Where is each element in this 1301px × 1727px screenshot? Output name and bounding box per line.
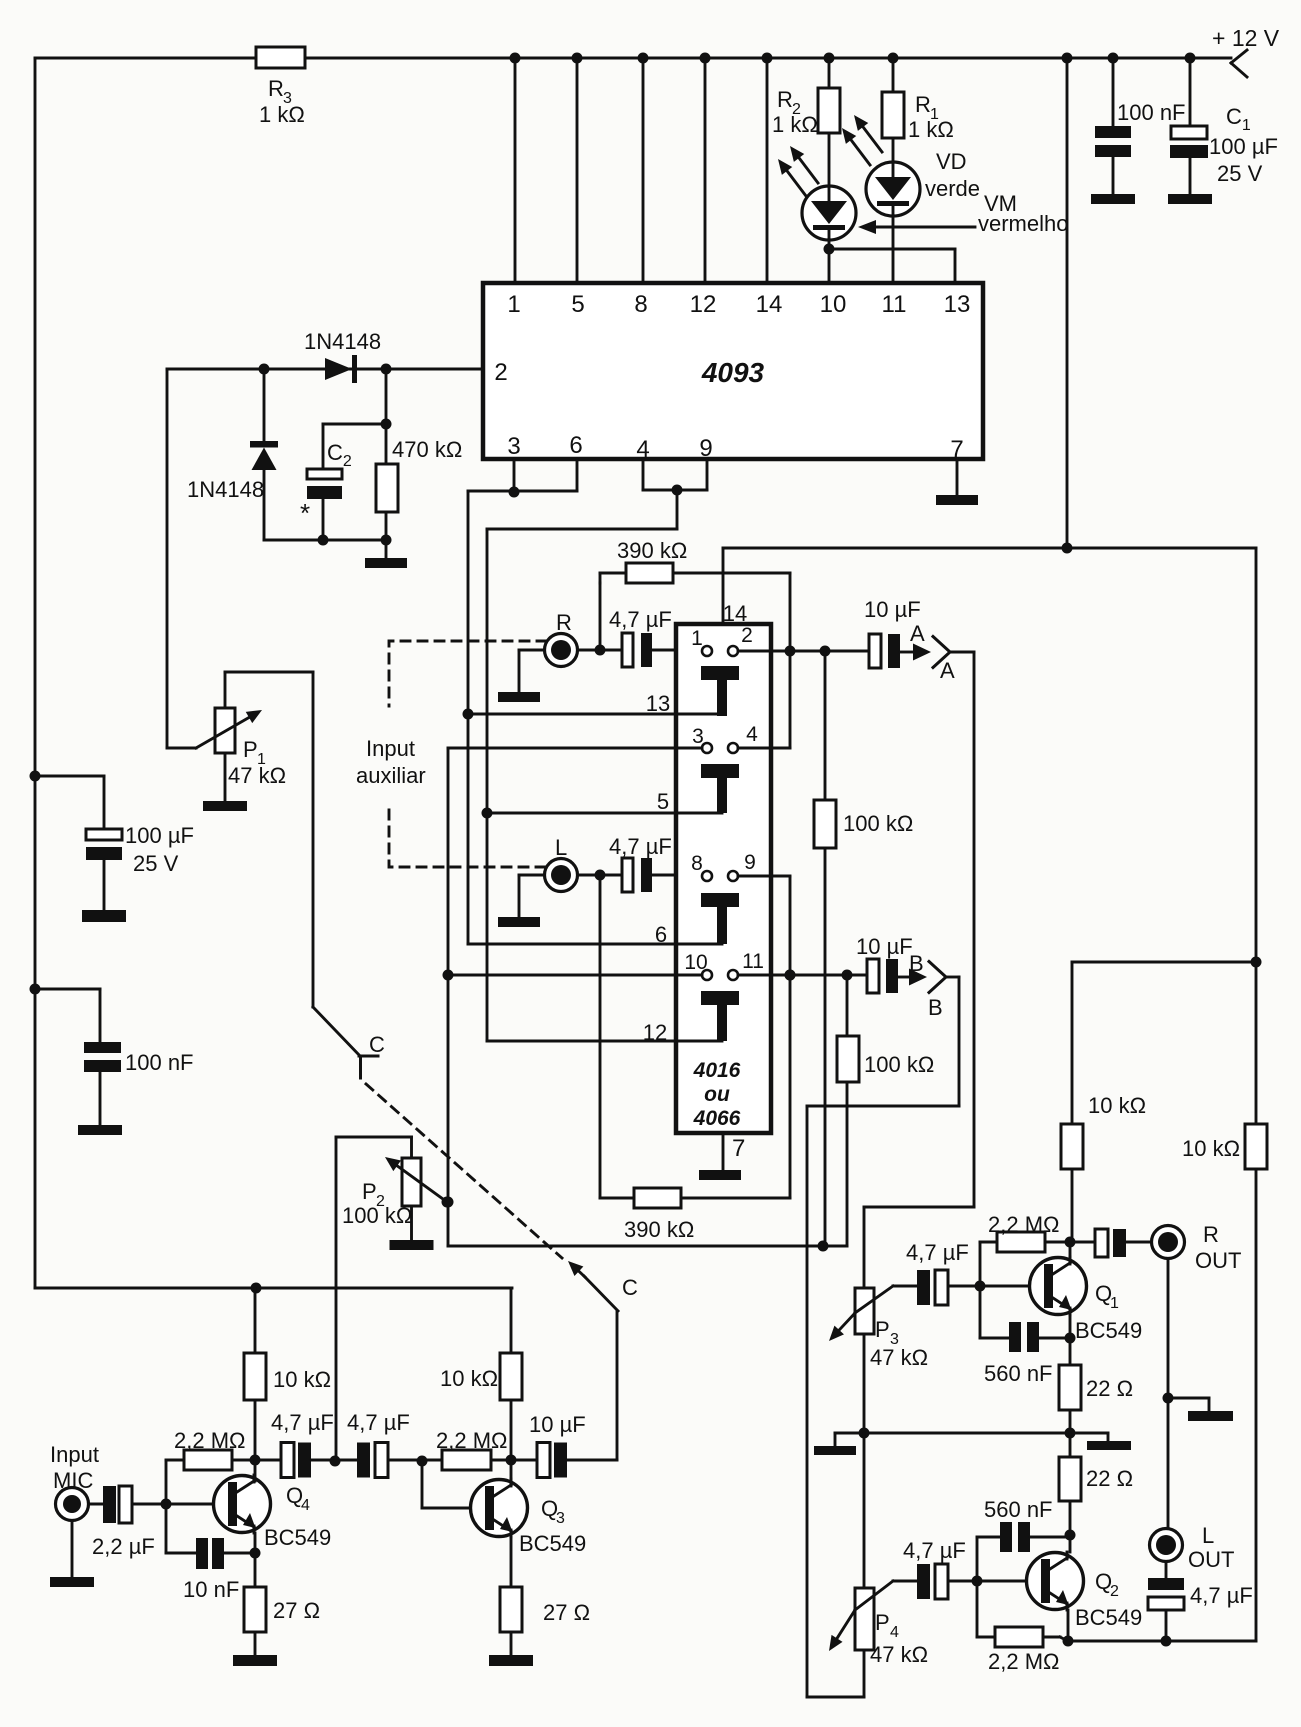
svg-text:R: R [777, 87, 793, 112]
wire cap to pin1 [652, 649, 702, 652]
svg-text:11: 11 [742, 950, 764, 973]
ground L jack [498, 875, 545, 927]
wire pin2 to P1 wiper [167, 369, 196, 748]
LED VM vermelho [778, 133, 856, 240]
svg-text:Input: Input [366, 736, 415, 761]
wire VD to pin11 [892, 216, 895, 283]
svg-text:OUT: OUT [1188, 1547, 1234, 1572]
svg-text:8: 8 [691, 852, 703, 875]
resistor R1 [882, 58, 954, 142]
resistor 2.2M Q4 [166, 1428, 255, 1504]
potentiometer P2 100k [336, 1137, 453, 1250]
capacitor 10uF B [856, 934, 913, 993]
svg-text:2,2 MΩ: 2,2 MΩ [436, 1428, 507, 1453]
svg-text:47 kΩ: 47 kΩ [870, 1642, 928, 1667]
svg-text:10: 10 [820, 291, 847, 318]
svg-text:Input: Input [50, 1442, 99, 1467]
svg-text:A: A [910, 621, 925, 646]
wire left rail [30, 771, 41, 995]
svg-text:BC549: BC549 [1075, 1318, 1142, 1343]
svg-text:10 µF: 10 µF [856, 934, 913, 959]
svg-text:P: P [362, 1179, 377, 1204]
pin 1 label [507, 291, 520, 318]
wire pin2 out [738, 646, 869, 657]
svg-text:4,7 µF: 4,7 µF [347, 1410, 410, 1435]
svg-text:100 µF: 100 µF [1209, 134, 1278, 159]
svg-text:1: 1 [691, 627, 703, 650]
node Q4 base [161, 1499, 229, 1510]
jack R input [545, 610, 578, 667]
node Q2 base [972, 1576, 983, 1587]
resistor 2.2M Q2 [977, 1581, 1068, 1674]
svg-text:1: 1 [1110, 1295, 1119, 1312]
svg-text:2,2 MΩ: 2,2 MΩ [988, 1212, 1059, 1237]
resistor 10k Q3 [440, 1288, 522, 1485]
svg-text:4066: 4066 [693, 1107, 741, 1130]
wire P1 top to C [225, 672, 360, 1056]
wire L to cap [578, 870, 623, 881]
transistor Q3 BC549 [471, 1479, 587, 1556]
wire P2 to Q4 node [335, 1137, 338, 1461]
svg-text:10 µF: 10 µF [864, 597, 921, 622]
resistor 100k B [837, 975, 934, 1246]
capacitor 10uF A [864, 597, 921, 668]
pin 11 label [882, 291, 907, 318]
ground 4016 pin7 [699, 1133, 745, 1180]
wire 390k-b to out node [785, 877, 796, 1198]
svg-text:10 kΩ: 10 kΩ [1182, 1136, 1240, 1161]
jack L OUT [1150, 1523, 1235, 1572]
svg-text:10 kΩ: 10 kΩ [440, 1366, 498, 1391]
svg-text:R: R [915, 92, 931, 117]
svg-text:A: A [940, 658, 955, 683]
svg-text:4,7 µF: 4,7 µF [1190, 1583, 1253, 1608]
resistor 22R bottom [1059, 1433, 1133, 1535]
node top rail junctions [510, 53, 1196, 64]
capacitor 4.7uF R [609, 607, 672, 667]
svg-text:6: 6 [655, 922, 667, 947]
svg-text:12: 12 [690, 291, 717, 318]
connector A female [910, 621, 955, 683]
svg-text:1 kΩ: 1 kΩ [259, 102, 305, 127]
node pin2 junctions [259, 364, 392, 375]
wire pin14 stub 4016 [723, 543, 1256, 627]
wire pin13 line [463, 691, 723, 720]
node Q2 emitter [1063, 1610, 1074, 1647]
svg-text:4: 4 [890, 1624, 899, 1641]
node interstage [330, 1456, 341, 1467]
jack R OUT [1152, 1222, 1242, 1273]
svg-text:390 kΩ: 390 kΩ [617, 538, 687, 563]
svg-text:P: P [875, 1610, 890, 1635]
potentiometer P4 47k [807, 1433, 928, 1697]
wire Q1 supply [1072, 962, 1256, 1124]
jack MIC input [50, 1442, 99, 1521]
wire pin1 stub [514, 58, 517, 283]
svg-text:1: 1 [507, 291, 520, 318]
wire Q3 out to C [616, 1311, 619, 1460]
pin 5 label [571, 291, 584, 318]
svg-text:C: C [369, 1032, 385, 1057]
svg-text:4,7 µF: 4,7 µF [609, 834, 672, 859]
LED VD verde [842, 115, 920, 216]
svg-text:4016: 4016 [693, 1059, 741, 1082]
wire pin10 input line [443, 970, 703, 981]
+12V terminal [1212, 25, 1280, 77]
pin 2 label [494, 359, 507, 386]
svg-text:9: 9 [744, 851, 756, 874]
label VD verde [925, 149, 980, 201]
svg-text:*: * [300, 498, 310, 528]
pin 9 label [699, 435, 712, 462]
wire C2 bottom [264, 539, 386, 542]
svg-text:100 kΩ: 100 kΩ [864, 1052, 934, 1077]
ground MIC [50, 1521, 94, 1588]
svg-text:R: R [1203, 1222, 1219, 1247]
capacitor 4.7uF P4 [893, 1538, 1040, 1599]
resistor 2.2M Q1 [980, 1212, 1070, 1286]
svg-text:R: R [268, 76, 284, 101]
pin 6 label [569, 432, 582, 459]
svg-text:B: B [909, 951, 924, 976]
ground C2 [365, 540, 407, 568]
capacitor 560nF Q1 [980, 1286, 1070, 1386]
wire pin8 stub [642, 58, 645, 283]
capacitor 100nF top [1091, 58, 1186, 204]
jack L input [545, 835, 578, 892]
svg-text:11: 11 [882, 291, 907, 318]
svg-text:47 kΩ: 47 kΩ [228, 763, 286, 788]
svg-text:47 kΩ: 47 kΩ [870, 1345, 928, 1370]
svg-text:100 nF: 100 nF [125, 1050, 194, 1075]
svg-text:14: 14 [723, 601, 747, 626]
pin 10 label [820, 291, 847, 318]
svg-text:560 nF: 560 nF [984, 1361, 1053, 1386]
svg-text:4,7 µF: 4,7 µF [903, 1538, 966, 1563]
connector C female [359, 1032, 385, 1078]
svg-text:C: C [622, 1275, 638, 1300]
switch S4 pins 10-11 [684, 950, 764, 1041]
wire pin12 stub [704, 58, 707, 283]
resistor 27R Q4 [233, 1533, 320, 1666]
diode D2 1N4148 vertical [187, 369, 278, 540]
svg-text:25 V: 25 V [1217, 161, 1263, 186]
svg-text:10 kΩ: 10 kΩ [273, 1367, 331, 1392]
label Input auxiliar [356, 736, 426, 788]
transistor Q1 BC549 [1030, 1257, 1143, 1343]
wire pins 3-6 output [468, 459, 577, 498]
potentiometer P3 47k [829, 1207, 928, 1433]
svg-text:6: 6 [569, 432, 582, 459]
resistor 470k [376, 424, 462, 546]
svg-text:3: 3 [507, 433, 520, 460]
svg-text:BC549: BC549 [1075, 1605, 1142, 1630]
ground emitter mid [1087, 1433, 1131, 1450]
pin 3 label [507, 433, 520, 460]
wire pin6 line [468, 922, 722, 947]
wire +12V top rail [35, 58, 1231, 1288]
capacitor 4.7uF Q3 in [335, 1410, 422, 1478]
capacitor 4.7uF L [609, 834, 672, 892]
resistor 27R Q3 [489, 1537, 590, 1666]
pin 4 label [636, 436, 649, 463]
svg-text:1 kΩ: 1 kΩ [908, 117, 954, 142]
resistor 390k bottom [600, 875, 790, 1242]
svg-text:4: 4 [746, 723, 758, 746]
svg-text:10 nF: 10 nF [183, 1577, 239, 1602]
pin 14 label [756, 291, 783, 318]
svg-text:2: 2 [1110, 1583, 1119, 1600]
connector B male [898, 969, 927, 986]
wire low supply rail [35, 1283, 512, 1294]
svg-text:10: 10 [684, 951, 707, 974]
svg-text:1 kΩ: 1 kΩ [772, 112, 818, 137]
capacitor 4.7uF L out [1148, 1562, 1253, 1642]
node Q1 base [975, 1281, 986, 1292]
resistor R3 [256, 47, 305, 127]
wire pin5 line [482, 789, 723, 819]
wire pin9 out [738, 875, 790, 878]
wire select bus vertical [443, 748, 454, 1246]
IC U1 4093 [483, 283, 983, 459]
svg-text:100 kΩ: 100 kΩ [342, 1203, 412, 1228]
svg-text:verde: verde [925, 176, 980, 201]
svg-text:B: B [928, 995, 943, 1020]
wire osc1 control line [467, 491, 470, 944]
switch S2 pins 3-4 [692, 723, 758, 813]
ground R jack [498, 650, 545, 702]
svg-text:22 Ω: 22 Ω [1086, 1466, 1133, 1491]
svg-text:7: 7 [732, 1135, 745, 1162]
svg-text:4,7 µF: 4,7 µF [271, 1410, 334, 1435]
resistor 22R top [1059, 1365, 1133, 1433]
diode D1 1N4148 [304, 329, 381, 383]
svg-text:P: P [875, 1317, 890, 1342]
svg-text:ou: ou [704, 1083, 730, 1106]
svg-text:2: 2 [494, 359, 507, 386]
svg-text:R: R [556, 610, 572, 635]
svg-text:4: 4 [301, 1497, 310, 1514]
svg-text:100 kΩ: 100 kΩ [843, 811, 913, 836]
resistor 10k Q4 [244, 1288, 331, 1481]
svg-text:14: 14 [756, 291, 783, 318]
node emitter mid [859, 1428, 1109, 1439]
svg-text:1N4148: 1N4148 [187, 477, 264, 502]
svg-text:3: 3 [556, 1510, 565, 1527]
capacitor 4.7uF P3 [893, 1240, 1043, 1305]
svg-text:L: L [1202, 1523, 1214, 1548]
capacitor 2.2uF [89, 1486, 167, 1559]
node Q3 base top [417, 1456, 428, 1467]
capacitor 10nF [166, 1504, 261, 1602]
wire pins 4-9 output [487, 459, 707, 529]
svg-text:2,2 MΩ: 2,2 MΩ [174, 1428, 245, 1453]
svg-text:12: 12 [643, 1020, 667, 1045]
wire pin11 out [738, 970, 867, 981]
svg-text:390 kΩ: 390 kΩ [624, 1217, 694, 1242]
ground R OUT [1163, 1259, 1234, 1529]
pin 7 label [950, 436, 963, 463]
wire R to cap [578, 645, 623, 656]
resistor 390k top [600, 538, 790, 650]
svg-text:13: 13 [944, 291, 971, 318]
pin 8 label [634, 291, 647, 318]
svg-text:BC549: BC549 [519, 1531, 586, 1556]
wire select bus horizontal [448, 1241, 847, 1252]
svg-text:VD: VD [936, 149, 967, 174]
svg-text:1N4148: 1N4148 [304, 329, 381, 354]
svg-text:4,7 µF: 4,7 µF [906, 1240, 969, 1265]
svg-text:auxiliar: auxiliar [356, 763, 426, 788]
svg-text:5: 5 [571, 291, 584, 318]
svg-text:13: 13 [646, 691, 670, 716]
wire A out [864, 652, 974, 1207]
svg-text:100 nF: 100 nF [1117, 100, 1186, 125]
node Q1 emitter [1065, 1315, 1076, 1365]
resistor R2 [772, 58, 840, 137]
resistor 100k A [814, 651, 913, 1246]
wire pin5 stub [576, 58, 579, 283]
svg-text:OUT: OUT [1195, 1248, 1241, 1273]
wire pin4 out [738, 747, 790, 750]
svg-text:2,2 µF: 2,2 µF [92, 1534, 155, 1559]
capacitor C1 100uF 25V [1168, 58, 1278, 204]
aux input dashed R [389, 641, 546, 706]
svg-text:100 µF: 100 µF [125, 823, 194, 848]
switch S1 pins 1-2 [691, 624, 753, 716]
svg-text:3: 3 [692, 725, 704, 748]
svg-text:25 V: 25 V [133, 851, 179, 876]
node Q2 collector [1065, 1530, 1076, 1553]
wire pin12 line [487, 1020, 722, 1045]
svg-text:2,2 MΩ: 2,2 MΩ [988, 1649, 1059, 1674]
node Q1 collector [1065, 1237, 1076, 1258]
wire pin13 branch [829, 249, 955, 283]
switch S3 pins 8-9 [691, 851, 756, 944]
aux input dashed L [389, 810, 546, 867]
pin 13 label [944, 291, 971, 318]
transistor Q4 BC549 [214, 1475, 332, 1550]
wire right bus [1251, 548, 1262, 1124]
capacitor 10uF Q3 out [511, 1412, 617, 1478]
svg-text:+ 12 V: + 12 V [1212, 25, 1280, 51]
pin 12 label [690, 291, 717, 318]
wire L out line [1068, 1636, 1256, 1647]
wire osc2 control line [486, 529, 489, 1041]
potentiometer P1 47k [196, 672, 286, 811]
svg-text:P: P [243, 737, 258, 762]
svg-text:MIC: MIC [53, 1468, 93, 1493]
svg-text:L: L [555, 835, 567, 860]
capacitor C2 [300, 369, 392, 546]
resistor 2.2M Q3 [422, 1428, 511, 1470]
svg-text:BC549: BC549 [264, 1525, 331, 1550]
resistor 10k Q1 [1061, 1093, 1146, 1242]
svg-text:470 kΩ: 470 kΩ [392, 437, 462, 462]
transistor Q2 BC549 [1027, 1552, 1143, 1630]
svg-text:27 Ω: 27 Ω [273, 1598, 320, 1623]
svg-text:5: 5 [657, 789, 669, 814]
capacitor 100uF 25V left [35, 776, 194, 922]
ground 4093 pin7 [936, 459, 978, 505]
wire cap to pin8 [652, 874, 702, 877]
wire B out [807, 977, 959, 1697]
node VM cathode [824, 240, 835, 283]
svg-text:10 µF: 10 µF [529, 1412, 586, 1437]
svg-text:8: 8 [634, 291, 647, 318]
svg-text:22 Ω: 22 Ω [1086, 1376, 1133, 1401]
capacitor 100nF left [35, 989, 194, 1135]
wire 390k to out node [789, 573, 792, 748]
svg-text:4,7 µF: 4,7 µF [609, 607, 672, 632]
svg-text:27 Ω: 27 Ω [543, 1600, 590, 1625]
svg-text:2: 2 [741, 624, 753, 647]
wire pin3 input line [448, 747, 702, 750]
wire C dashed link [366, 1084, 562, 1258]
wire pin2 line [167, 368, 483, 371]
capacitor 10uF R out [1070, 1229, 1151, 1257]
wire Q3 base [422, 1461, 485, 1508]
arrow vermelho pointer [858, 220, 975, 234]
svg-text:10 kΩ: 10 kΩ [1088, 1093, 1146, 1118]
connector A male [900, 644, 931, 661]
label VM vermelho [978, 191, 1068, 236]
connector C male [568, 1261, 638, 1311]
ground P3 P4 node [814, 1433, 864, 1455]
wire pin14 stub [766, 58, 769, 283]
svg-text:4093: 4093 [701, 357, 765, 388]
wire rail to 4016 bus [1066, 58, 1069, 548]
capacitor 4.7uF Q4 out [255, 1410, 335, 1478]
resistor 10k right [1182, 1124, 1267, 1641]
svg-text:560 nF: 560 nF [984, 1497, 1053, 1522]
capacitor 560nF Q2 [977, 1497, 1070, 1581]
IC U2 4016/4066 [676, 624, 771, 1133]
connector B female [909, 951, 946, 1020]
svg-text:vermelho: vermelho [978, 211, 1068, 236]
